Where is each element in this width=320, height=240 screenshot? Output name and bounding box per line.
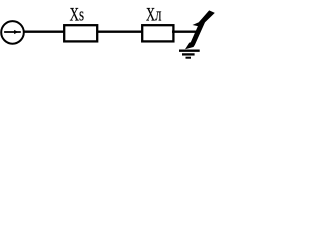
- resistor Xs: [64, 25, 97, 41]
- ground bar 1: [179, 50, 200, 52]
- wire from source to resistor Xs: [24, 31, 66, 33]
- ground bar 3: [186, 57, 192, 59]
- wire between resistors: [97, 31, 143, 33]
- wire from resistor Хл to fault point: [172, 31, 198, 33]
- ground bar 2: [182, 53, 195, 55]
- EMF source G1 (circle): [1, 21, 24, 44]
- svg-text:Хл: Хл: [146, 5, 161, 25]
- EMF arrow inside source: [4, 30, 21, 34]
- svg-text:Xs: Xs: [70, 5, 84, 25]
- resistor Хл: [142, 25, 173, 41]
- short-circuit lightning arrow: [185, 10, 215, 49]
